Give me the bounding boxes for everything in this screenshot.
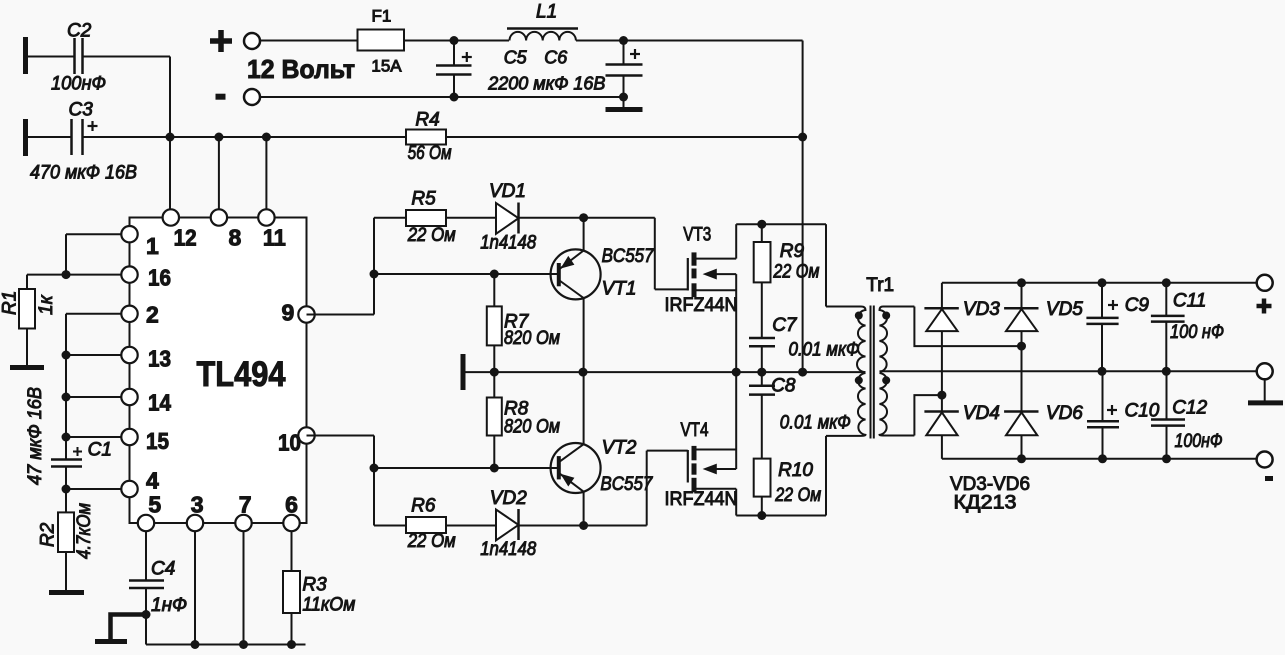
svg-text:6: 6	[285, 491, 298, 517]
svg-text:100нФ: 100нФ	[51, 74, 106, 95]
svg-text:100 нФ: 100 нФ	[1170, 322, 1224, 343]
svg-text:VD3: VD3	[963, 299, 1000, 320]
svg-text:IRFZ44N: IRFZ44N	[665, 489, 738, 510]
svg-text:Tr1: Tr1	[866, 275, 894, 296]
svg-text:R6: R6	[411, 495, 436, 516]
svg-text:4.7кОм: 4.7кОм	[74, 503, 95, 559]
svg-text:1n4148: 1n4148	[480, 539, 536, 560]
svg-text:56 Ом: 56 Ом	[408, 143, 452, 164]
svg-text:C3: C3	[69, 100, 94, 121]
svg-text:7: 7	[239, 491, 252, 517]
svg-text:14: 14	[148, 390, 171, 416]
svg-text:VT4: VT4	[681, 420, 709, 441]
svg-text:9: 9	[282, 299, 295, 325]
svg-text:C4: C4	[151, 559, 175, 580]
svg-text:1к: 1к	[36, 294, 57, 315]
svg-text:VD5: VD5	[1046, 299, 1083, 320]
svg-text:C8: C8	[771, 376, 796, 397]
svg-text:5: 5	[148, 491, 161, 517]
svg-text:2: 2	[146, 302, 159, 328]
svg-text:C5: C5	[504, 47, 528, 67]
svg-text:8: 8	[229, 225, 242, 251]
svg-text:2200 мкФ 16В: 2200 мкФ 16В	[487, 73, 605, 93]
svg-text:3: 3	[191, 491, 204, 517]
svg-text:22 Ом: 22 Ом	[774, 485, 821, 506]
svg-text:C12: C12	[1172, 398, 1207, 419]
svg-text:R3: R3	[302, 575, 327, 596]
svg-text:F1: F1	[372, 7, 392, 26]
svg-text:R9: R9	[780, 241, 805, 262]
svg-text:4: 4	[146, 467, 159, 493]
svg-text:VD6: VD6	[1046, 403, 1083, 424]
svg-text:C6: C6	[544, 47, 568, 67]
svg-text:1нФ: 1нФ	[151, 595, 187, 616]
svg-text:C11: C11	[1173, 291, 1206, 312]
svg-text:BC557: BC557	[602, 246, 655, 267]
svg-text:12: 12	[174, 225, 197, 251]
svg-text:100нФ: 100нФ	[1175, 431, 1223, 452]
svg-text:VT2: VT2	[602, 438, 637, 459]
svg-text:0.01 мкФ: 0.01 мкФ	[789, 340, 860, 361]
svg-text:22 Ом: 22 Ом	[773, 262, 820, 283]
svg-text:VD1: VD1	[489, 181, 526, 202]
svg-text:11кОм: 11кОм	[302, 595, 355, 616]
svg-text:C2: C2	[67, 21, 92, 42]
svg-text:16: 16	[148, 265, 171, 291]
svg-text:C10: C10	[1125, 401, 1160, 422]
svg-text:VT3: VT3	[683, 225, 711, 246]
svg-text:820 Ом: 820 Ом	[504, 417, 560, 438]
svg-text:47 мкФ 16В: 47 мкФ 16В	[25, 387, 46, 485]
svg-text:11: 11	[263, 225, 286, 251]
svg-text:VT1: VT1	[602, 279, 637, 300]
svg-text:22 Ом: 22 Ом	[407, 225, 456, 246]
svg-text:КД213: КД213	[954, 493, 1017, 514]
svg-text:C9: C9	[1125, 295, 1150, 316]
svg-text:L1: L1	[536, 2, 557, 23]
svg-text:0.01 мкФ: 0.01 мкФ	[780, 413, 851, 434]
svg-text:1n4148: 1n4148	[480, 233, 536, 254]
svg-text:470 мкФ 16В: 470 мкФ 16В	[30, 163, 137, 184]
svg-text:12 Вольт: 12 Вольт	[247, 54, 355, 84]
svg-text:22 Ом: 22 Ом	[407, 531, 456, 552]
svg-text:10: 10	[278, 430, 301, 456]
svg-text:1: 1	[146, 233, 159, 259]
svg-text:820 Ом: 820 Ом	[504, 328, 560, 349]
svg-text:VD2: VD2	[490, 488, 527, 509]
svg-text:C1: C1	[88, 440, 112, 461]
svg-text:13: 13	[148, 346, 171, 372]
svg-text:15: 15	[146, 428, 169, 454]
svg-text:VD4: VD4	[963, 403, 1000, 424]
svg-text:BC557: BC557	[600, 474, 653, 495]
svg-text:R2: R2	[38, 522, 59, 547]
svg-text:R10: R10	[778, 460, 813, 481]
svg-text:R4: R4	[415, 110, 439, 131]
svg-text:TL494: TL494	[197, 355, 286, 394]
svg-text:15A: 15A	[371, 57, 402, 76]
svg-text:R5: R5	[411, 188, 436, 209]
svg-text:R1: R1	[0, 291, 21, 315]
svg-text:IRFZ44N: IRFZ44N	[665, 295, 738, 316]
svg-text:C7: C7	[772, 315, 798, 336]
